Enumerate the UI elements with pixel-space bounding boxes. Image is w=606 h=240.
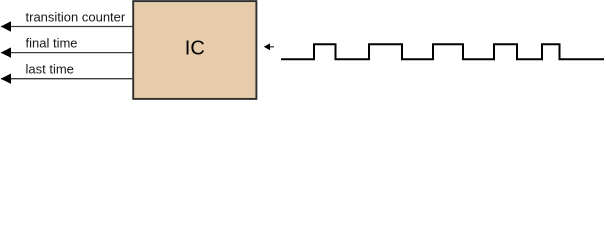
clock signal waveform [281, 44, 604, 59]
arrowhead: last time [1, 74, 11, 84]
wire: transition counter output [1, 26, 133, 28]
clock input arrow into IC [264, 43, 274, 50]
svg-text:transition counter: transition counter [26, 9, 126, 24]
wire: last time output [1, 78, 133, 80]
IC block U1 [133, 1, 256, 99]
wire: final time output [1, 52, 133, 54]
arrowhead: transition counter [1, 21, 11, 31]
svg-text:IC: IC [185, 38, 205, 60]
svg-text:final time: final time [26, 36, 78, 51]
svg-text:last time: last time [26, 62, 74, 77]
arrowhead: final time [1, 47, 11, 57]
